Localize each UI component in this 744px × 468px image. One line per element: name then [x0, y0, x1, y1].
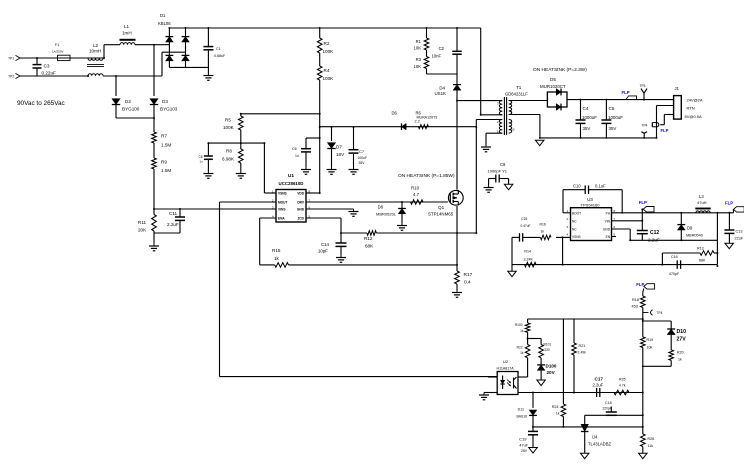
svg-text:1000pF Y1: 1000pF Y1 — [488, 168, 508, 173]
svg-text:25V: 25V — [521, 449, 528, 453]
svg-text:D4: D4 — [439, 86, 445, 91]
svg-text:1A/250V: 1A/250V — [52, 50, 64, 54]
svg-text:PH: PH — [606, 211, 611, 215]
svg-text:2.2: 2.2 — [415, 119, 420, 123]
svg-text:27V: 27V — [677, 337, 687, 343]
svg-text:C17: C17 — [595, 377, 604, 382]
svg-text:ON HEATSINK (P=1.85W): ON HEATSINK (P=1.85W) — [398, 173, 455, 179]
svg-text:U3: U3 — [587, 197, 593, 202]
svg-text:4.7: 4.7 — [413, 192, 420, 197]
svg-text:C19: C19 — [519, 437, 527, 442]
svg-text:20K: 20K — [138, 228, 147, 233]
svg-text:C18: C18 — [605, 401, 612, 405]
svg-text:0.47uF: 0.47uF — [521, 224, 531, 228]
svg-text:R24: R24 — [552, 405, 559, 409]
svg-text:KBL06: KBL06 — [158, 21, 171, 26]
svg-text:0.1uF: 0.1uF — [595, 184, 606, 189]
svg-text:C14: C14 — [321, 242, 330, 247]
svg-text:R18: R18 — [632, 298, 639, 302]
svg-text:ENA: ENA — [278, 217, 285, 221]
svg-text:R13: R13 — [697, 247, 704, 251]
svg-text:100uF: 100uF — [358, 156, 368, 160]
svg-text:TP2: TP2 — [8, 75, 14, 79]
svg-text:DRV: DRV — [297, 201, 305, 205]
svg-text:ON HEATSINK (P=2.3W): ON HEATSINK (P=2.3W) — [533, 67, 587, 73]
svg-text:D9: D9 — [687, 226, 693, 231]
svg-text:R11: R11 — [138, 220, 147, 225]
svg-text:C11: C11 — [169, 211, 178, 216]
svg-text:1k: 1k — [520, 329, 524, 333]
svg-text:GND: GND — [603, 228, 611, 232]
svg-text:1n: 1n — [200, 160, 204, 164]
svg-text:4.7k: 4.7k — [619, 384, 626, 388]
svg-text:2.49k: 2.49k — [578, 351, 587, 355]
svg-text:0.68uF: 0.68uF — [214, 54, 226, 58]
svg-text:D1: D1 — [160, 13, 166, 18]
svg-text:35V: 35V — [583, 126, 591, 131]
svg-text:10K: 10K — [414, 64, 422, 69]
svg-text:R10: R10 — [411, 186, 420, 191]
svg-text:D2: D2 — [125, 99, 131, 104]
svg-text:T1: T1 — [516, 85, 522, 90]
svg-text:UCC28610D: UCC28610D — [279, 181, 304, 186]
svg-text:FLP: FLP — [639, 200, 647, 205]
svg-text:0.4: 0.4 — [464, 280, 471, 286]
svg-text:453: 453 — [632, 305, 638, 309]
svg-text:100K: 100K — [223, 125, 235, 130]
svg-text:10nF: 10nF — [431, 54, 441, 59]
svg-text:1.5M: 1.5M — [161, 168, 171, 173]
svg-text:EN: EN — [606, 235, 611, 239]
svg-text:C13: C13 — [736, 230, 743, 234]
svg-text:MOUT: MOUT — [278, 201, 287, 205]
svg-text:2.2uF: 2.2uF — [593, 383, 604, 388]
svg-text:J1: J1 — [675, 86, 680, 91]
svg-text:C3: C3 — [44, 64, 50, 69]
svg-text:2.2uF: 2.2uF — [167, 222, 179, 227]
svg-text:47uF: 47uF — [519, 444, 528, 448]
svg-text:C12: C12 — [650, 230, 659, 236]
svg-text:10mH: 10mH — [89, 49, 101, 54]
svg-text:D6: D6 — [392, 111, 398, 116]
svg-text:10K: 10K — [414, 46, 422, 51]
svg-text:FLP: FLP — [661, 128, 669, 133]
svg-text:BOOT: BOOT — [572, 211, 581, 215]
svg-text:D10: D10 — [677, 329, 687, 335]
svg-text:C6: C6 — [292, 147, 297, 151]
svg-text:MUR1020CT: MUR1020CT — [540, 84, 566, 89]
svg-text:R4: R4 — [324, 68, 330, 73]
svg-text:C5: C5 — [609, 106, 615, 111]
svg-text:R8: R8 — [226, 149, 232, 154]
svg-text:RTN: RTN — [687, 106, 695, 111]
svg-text:24V@2A: 24V@2A — [687, 97, 703, 102]
svg-text:R7: R7 — [161, 134, 167, 139]
svg-text:L2: L2 — [93, 43, 99, 48]
svg-text:470pF: 470pF — [669, 272, 680, 276]
svg-text:35V: 35V — [609, 126, 617, 131]
svg-text:ZCD: ZCD — [297, 217, 304, 221]
svg-text:1.5M: 1.5M — [161, 143, 171, 148]
svg-text:L1: L1 — [124, 24, 130, 29]
svg-text:C8: C8 — [199, 155, 203, 159]
svg-text:220pF: 220pF — [603, 406, 612, 410]
svg-text:68K: 68K — [365, 244, 374, 249]
svg-text:R20: R20 — [677, 351, 684, 355]
svg-text:NC: NC — [572, 219, 577, 223]
svg-text:US1K: US1K — [435, 91, 447, 96]
svg-text:1n: 1n — [295, 154, 299, 158]
svg-text:R26: R26 — [648, 437, 655, 441]
svg-text:18V: 18V — [336, 152, 345, 157]
svg-text:3.24K: 3.24K — [524, 257, 534, 261]
svg-text:D11: D11 — [518, 408, 524, 412]
svg-text:U2: U2 — [503, 359, 509, 364]
svg-text:TP4: TP4 — [657, 311, 663, 315]
svg-text:TPS54160: TPS54160 — [581, 203, 601, 208]
svg-text:R25: R25 — [619, 378, 626, 382]
svg-text:R21: R21 — [579, 344, 586, 348]
svg-text:GD64231LF: GD64231LF — [505, 92, 528, 97]
svg-text:10: 10 — [511, 128, 515, 132]
svg-text:FLP: FLP — [636, 282, 644, 287]
svg-text:VSNS: VSNS — [278, 192, 287, 196]
svg-text:D8: D8 — [378, 205, 384, 210]
svg-text:35V: 35V — [359, 161, 366, 165]
svg-text:10k: 10k — [647, 346, 653, 350]
svg-text:100K: 100K — [323, 49, 335, 54]
svg-text:VIN: VIN — [605, 219, 611, 223]
svg-text:D7: D7 — [336, 145, 342, 150]
svg-text:D100: D100 — [546, 364, 557, 369]
svg-text:220: 220 — [545, 348, 551, 352]
svg-text:D5: D5 — [550, 77, 556, 82]
svg-text:20V: 20V — [547, 370, 556, 375]
svg-text:22uF: 22uF — [735, 237, 744, 241]
svg-text:6.98K: 6.98K — [222, 157, 235, 162]
svg-text:R16: R16 — [540, 222, 546, 226]
svg-text:Q1: Q1 — [438, 205, 445, 210]
svg-text:U4: U4 — [592, 435, 598, 440]
svg-text:F1: F1 — [55, 43, 59, 47]
svg-text:TP4: TP4 — [642, 124, 648, 128]
svg-text:R5: R5 — [225, 118, 231, 123]
svg-text:1000uF: 1000uF — [608, 115, 623, 120]
svg-text:10pF: 10pF — [318, 249, 328, 254]
svg-text:68K: 68K — [699, 259, 706, 263]
svg-text:GND: GND — [297, 208, 305, 212]
svg-text:C10: C10 — [573, 184, 581, 189]
svg-text:C9: C9 — [500, 162, 506, 167]
svg-text:VDD: VDD — [297, 192, 304, 196]
svg-text:47uH: 47uH — [697, 200, 707, 205]
svg-text:1mH: 1mH — [122, 31, 132, 36]
svg-text:VSNS: VSNS — [572, 235, 581, 239]
svg-text:BYG103: BYG103 — [160, 107, 178, 112]
svg-text:FLP: FLP — [622, 90, 630, 95]
svg-text:C1: C1 — [216, 47, 221, 51]
svg-text:C16: C16 — [671, 255, 678, 259]
svg-text:STP14NM65: STP14NM65 — [428, 212, 454, 217]
svg-text:NC: NC — [572, 228, 577, 232]
svg-text:R22: R22 — [517, 346, 523, 350]
svg-text:R101: R101 — [544, 343, 552, 347]
svg-text:TL431ADBZ: TL431ADBZ — [588, 442, 611, 447]
svg-text:R2: R2 — [324, 41, 330, 46]
svg-text:MBR0540: MBR0540 — [686, 234, 703, 238]
svg-text:TP1: TP1 — [8, 57, 14, 61]
svg-text:90Vac to 265Vac: 90Vac to 265Vac — [17, 100, 66, 107]
svg-text:BAS16: BAS16 — [516, 415, 527, 419]
svg-text:R19: R19 — [647, 338, 654, 342]
svg-text:11k: 11k — [648, 444, 654, 448]
svg-text:C15: C15 — [521, 217, 527, 221]
svg-text:L3: L3 — [699, 194, 704, 199]
svg-text:0.22uF: 0.22uF — [42, 71, 56, 76]
svg-text:U1: U1 — [288, 173, 294, 179]
svg-text:BYG100: BYG100 — [122, 107, 140, 112]
svg-text:MBR0520L: MBR0520L — [376, 212, 397, 217]
svg-text:C7: C7 — [359, 149, 365, 154]
svg-text:1000uF: 1000uF — [582, 115, 597, 120]
svg-text:R1: R1 — [416, 39, 422, 44]
svg-text:H11A817A: H11A817A — [497, 366, 515, 370]
svg-text:1k: 1k — [556, 412, 560, 416]
svg-text:C4: C4 — [583, 106, 589, 111]
svg-text:R17: R17 — [464, 272, 473, 278]
svg-text:FLP: FLP — [725, 201, 733, 206]
svg-text:R6: R6 — [416, 111, 422, 116]
svg-text:1k: 1k — [541, 230, 545, 234]
svg-text:R14: R14 — [524, 250, 531, 254]
svg-text:R9: R9 — [161, 160, 167, 165]
svg-text:VINS: VINS — [278, 208, 285, 212]
svg-text:D3: D3 — [162, 99, 168, 104]
svg-text:100K: 100K — [323, 76, 335, 81]
svg-text:1k: 1k — [274, 256, 280, 261]
svg-text:TP5: TP5 — [640, 84, 646, 88]
svg-text:1k: 1k — [520, 351, 524, 355]
svg-text:R100: R100 — [515, 323, 523, 327]
svg-text:C2: C2 — [439, 46, 445, 51]
svg-text:R12: R12 — [364, 236, 373, 241]
svg-text:5V@0.5A: 5V@0.5A — [685, 114, 703, 119]
svg-text:1k: 1k — [678, 358, 682, 362]
svg-text:R3: R3 — [416, 57, 422, 62]
svg-text:R15: R15 — [272, 248, 281, 253]
